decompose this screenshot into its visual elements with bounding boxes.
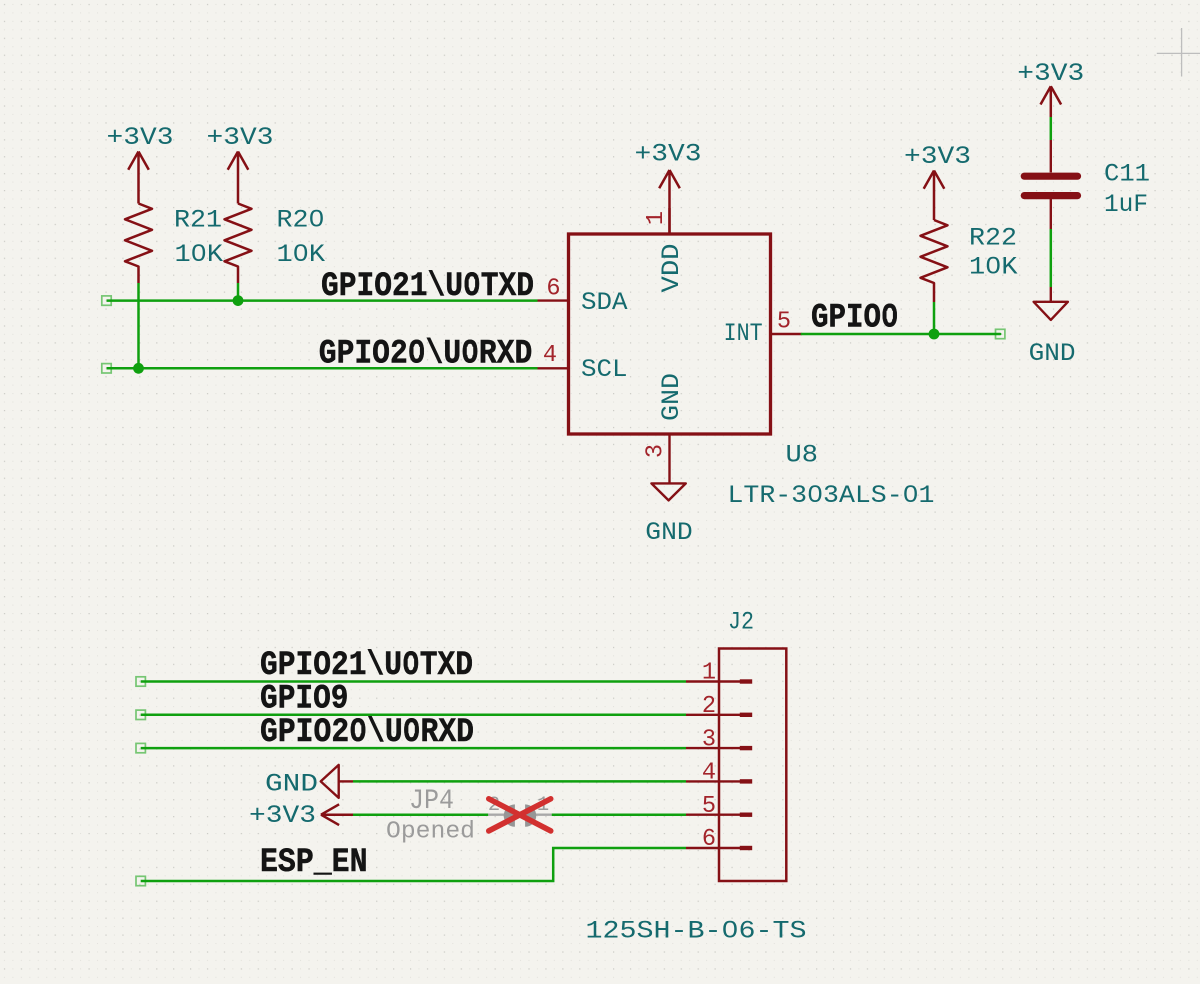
U8 pin 4 SCL bbox=[538, 342, 628, 384]
DNP cross (JP4) bbox=[489, 799, 551, 831]
junction (R21 / SCL net) bbox=[133, 363, 144, 374]
power symbol +3V3 (J2 pin 5, left) bbox=[249, 801, 353, 830]
svg-text:GND: GND bbox=[657, 373, 686, 421]
U8 pin 6 SDA bbox=[538, 276, 628, 317]
svg-text:VDD: VDD bbox=[657, 244, 686, 293]
resistor R20 bbox=[225, 204, 326, 284]
svg-text:GND: GND bbox=[645, 518, 693, 547]
power symbol +3V3 (U8 VDD) bbox=[635, 140, 702, 235]
wire SDA net (GPIO21\U0TXD) bbox=[107, 299, 538, 302]
J2 pin 5 bbox=[686, 793, 752, 820]
power symbol +3V3 (above R22) bbox=[904, 142, 971, 220]
resistor R22 bbox=[921, 220, 1018, 302]
ground symbol (U8 pin 3) bbox=[645, 483, 693, 546]
svg-text:6: 6 bbox=[702, 826, 716, 853]
wire +3V3 to C11 bbox=[1050, 117, 1053, 140]
svg-text:GPIO20\U0RXD: GPIO20\U0RXD bbox=[260, 714, 474, 752]
svg-text:5: 5 bbox=[702, 793, 716, 820]
svg-text:3: 3 bbox=[643, 444, 670, 458]
wire end marker (pin3 net) bbox=[136, 743, 145, 752]
wire end marker (ESP_EN net) bbox=[136, 876, 145, 885]
wire R20 to SDA net bbox=[237, 283, 240, 301]
svg-text:+3V3: +3V3 bbox=[107, 123, 174, 152]
svg-text:GND: GND bbox=[265, 769, 318, 798]
connector J2 body bbox=[719, 649, 786, 882]
svg-text:2: 2 bbox=[702, 693, 716, 720]
U8 pin 5 INT bbox=[724, 309, 802, 348]
wire J2 pin2 net bbox=[141, 714, 686, 717]
wire ESP_EN net bbox=[141, 848, 686, 881]
svg-text:3: 3 bbox=[702, 726, 716, 753]
wire end marker (pin1 net) bbox=[136, 677, 145, 686]
wire R22 to INT net bbox=[933, 302, 936, 334]
wire end marker (SDA net left) bbox=[102, 296, 111, 305]
J2 pin 6 bbox=[686, 826, 752, 853]
svg-text:4: 4 bbox=[702, 760, 716, 787]
wire end marker (pin2 net) bbox=[136, 710, 145, 719]
wire J2 pin4 net bbox=[353, 780, 686, 783]
svg-text:1: 1 bbox=[702, 660, 716, 687]
svg-text:+3V3: +3V3 bbox=[1017, 59, 1084, 88]
wire INT net bbox=[802, 333, 1000, 336]
ground symbol (J2 pin 4) bbox=[265, 765, 353, 798]
svg-text:LTR-303ALS-01: LTR-303ALS-01 bbox=[728, 481, 935, 510]
svg-text:SCL: SCL bbox=[581, 355, 628, 384]
wire SCL net (GPIO20\U0RXD) bbox=[107, 367, 538, 370]
power symbol +3V3 (above C11) bbox=[1017, 59, 1084, 117]
U8 pin 3 GND bbox=[643, 373, 686, 483]
svg-text:1: 1 bbox=[643, 211, 670, 225]
svg-text:U8: U8 bbox=[786, 441, 819, 470]
svg-text:GPIO21\U0TXD: GPIO21\U0TXD bbox=[260, 647, 473, 685]
svg-text:SDA: SDA bbox=[581, 288, 628, 317]
svg-text:+3V3: +3V3 bbox=[635, 140, 702, 169]
wire J2 pin1 net bbox=[141, 680, 686, 683]
resistor R21 bbox=[125, 204, 223, 284]
svg-text:+3V3: +3V3 bbox=[207, 123, 274, 152]
sheet crosshair marker bbox=[1157, 28, 1200, 77]
svg-text:ESP_EN: ESP_EN bbox=[260, 844, 368, 882]
wire R21 to SCL net bbox=[137, 283, 140, 368]
J2 pin 1 bbox=[686, 660, 752, 687]
IC U8 body (LTR-303ALS-01 ambient light sensor) bbox=[569, 234, 771, 434]
svg-text:5: 5 bbox=[777, 309, 791, 336]
zero glyph dot covers (font fixup) bbox=[196, 215, 996, 932]
svg-text:R22: R22 bbox=[969, 224, 1017, 253]
U8 pin 1 VDD bbox=[643, 208, 686, 293]
svg-text:R21: R21 bbox=[174, 206, 222, 235]
junction (R20 / SDA net) bbox=[233, 295, 244, 306]
wire J2 pin5 net (right of JP4) bbox=[552, 813, 686, 816]
svg-text:+3V3: +3V3 bbox=[904, 142, 971, 171]
svg-text:6: 6 bbox=[546, 276, 560, 303]
J2 pin 4 bbox=[686, 760, 752, 787]
wire end marker (SCL net left) bbox=[102, 364, 111, 373]
svg-text:GND: GND bbox=[1029, 339, 1076, 368]
svg-text:J2: J2 bbox=[728, 607, 754, 636]
ground symbol (C11) bbox=[1029, 287, 1076, 368]
svg-text:4: 4 bbox=[543, 342, 557, 369]
svg-text:+3V3: +3V3 bbox=[249, 801, 316, 830]
J2 pin 2 bbox=[686, 693, 752, 720]
power symbol +3V3 (above R20) bbox=[207, 123, 274, 204]
jumper JP4 (DNP) bbox=[386, 786, 552, 846]
svg-text:GPIO9: GPIO9 bbox=[260, 681, 349, 719]
svg-text:GPIO21\U0TXD: GPIO21\U0TXD bbox=[321, 268, 534, 306]
wire J2 pin3 net bbox=[141, 747, 686, 750]
J2 pin 3 bbox=[686, 726, 752, 753]
svg-text:125SH-B-06-TS: 125SH-B-06-TS bbox=[586, 916, 807, 945]
svg-text:GPIO0: GPIO0 bbox=[811, 299, 899, 337]
wire J2 pin5 net (left of JP4) bbox=[353, 813, 488, 816]
svg-text:INT: INT bbox=[724, 319, 763, 348]
wire C11 to GND bbox=[1050, 229, 1053, 287]
power symbol +3V3 (above R21) bbox=[107, 123, 174, 204]
wire end marker (INT net right) bbox=[996, 329, 1005, 338]
capacitor C11 bbox=[1024, 140, 1150, 229]
junction (R22 / INT net) bbox=[929, 329, 940, 340]
svg-text:JP4: JP4 bbox=[409, 786, 454, 817]
svg-text:GPIO20\U0RXD: GPIO20\U0RXD bbox=[319, 335, 533, 373]
svg-text:Opened: Opened bbox=[386, 819, 475, 846]
svg-text:C11: C11 bbox=[1104, 159, 1150, 188]
svg-text:1uF: 1uF bbox=[1104, 190, 1148, 219]
